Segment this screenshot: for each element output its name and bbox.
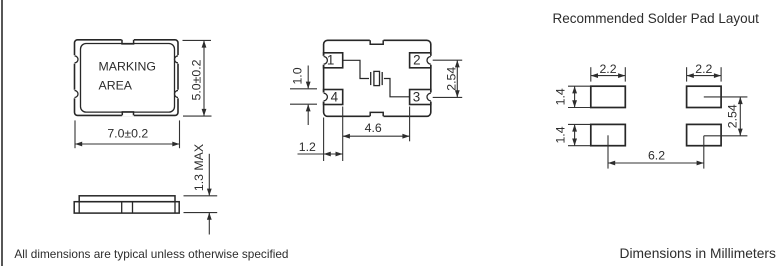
dimension 2.2 (right pads) <box>687 67 722 81</box>
dimension 1.2 <box>298 107 343 162</box>
wire crystal to pin3 <box>384 79 410 97</box>
dimension 4.6 <box>343 107 410 142</box>
left edge castellation notch (lower) <box>70 90 79 99</box>
side view pad dividers <box>79 202 175 213</box>
top lid seam notch <box>122 39 134 44</box>
package outline (schematic view) <box>324 40 431 116</box>
svg-text:1.2: 1.2 <box>299 140 316 154</box>
top notch <box>370 39 384 44</box>
svg-text:Dimensions in Millimeters: Dimensions in Millimeters <box>620 246 777 261</box>
pad 1 (top-left) <box>319 53 343 68</box>
pad 3 (bottom-right) <box>410 89 436 104</box>
dimension 1.3 MAX <box>184 154 218 235</box>
solder pad bottom-right <box>687 124 722 145</box>
svg-text:5.0±0.2: 5.0±0.2 <box>189 59 203 100</box>
svg-text:1.3 MAX: 1.3 MAX <box>192 144 206 191</box>
svg-text:MARKING: MARKING <box>99 60 156 74</box>
side view base <box>74 202 179 213</box>
crystal X1 right plate <box>381 72 383 85</box>
dimension 2.2 (left pads) <box>591 67 626 81</box>
solder pad top-left <box>591 86 626 107</box>
right edge castellation notch (lower) <box>174 90 183 99</box>
svg-text:6.2: 6.2 <box>648 149 665 163</box>
dimension 6.2 <box>608 135 704 168</box>
dimension 5.0±0.2 <box>183 40 212 116</box>
bottom notch <box>370 112 384 117</box>
side view lid <box>79 196 175 202</box>
svg-text:4.6: 4.6 <box>365 121 382 135</box>
crystal X1 body <box>374 71 380 85</box>
svg-text:Recommended Solder Pad Layout: Recommended Solder Pad Layout <box>553 11 760 26</box>
svg-text:2.54: 2.54 <box>444 67 458 91</box>
pad 2 (top-right) <box>410 53 436 68</box>
svg-text:AREA: AREA <box>99 79 133 93</box>
svg-text:1: 1 <box>327 53 334 68</box>
left edge castellation notch (upper) <box>70 55 79 64</box>
dimension 1.0 <box>290 66 317 126</box>
right edge castellation notch (upper) <box>174 55 183 64</box>
package outline (top view) <box>75 40 179 116</box>
dimension 2.54 (schematic) <box>433 60 463 97</box>
svg-text:2: 2 <box>413 53 420 68</box>
wire pin1 to crystal <box>343 60 369 78</box>
svg-text:2.2: 2.2 <box>599 62 616 76</box>
svg-text:3: 3 <box>413 89 420 104</box>
svg-text:2.54: 2.54 <box>725 104 739 128</box>
dimension 2.54 (pad layout) <box>704 97 748 136</box>
dimension 1.4 (upper left pad) <box>568 86 590 107</box>
solder pad top-right <box>687 86 722 107</box>
svg-text:All dimensions are typical unl: All dimensions are typical unless otherw… <box>14 247 288 261</box>
svg-text:7.0±0.2: 7.0±0.2 <box>107 127 148 141</box>
lid inner outline <box>81 44 175 113</box>
dimension 1.4 (lower left pad) <box>568 124 590 145</box>
frame left border <box>1 0 3 266</box>
svg-text:1.4: 1.4 <box>554 88 568 105</box>
svg-text:1.4: 1.4 <box>554 126 568 143</box>
svg-text:1.0: 1.0 <box>291 67 305 84</box>
crystal X1 left plate <box>370 72 372 85</box>
solder pad bottom-left <box>591 124 626 145</box>
svg-text:4: 4 <box>331 89 339 104</box>
pad 4 (bottom-left) <box>319 89 343 104</box>
bottom lid seam notch <box>122 112 134 117</box>
label MARKING AREA <box>99 60 156 93</box>
dimension 7.0±0.2 <box>75 120 180 148</box>
svg-text:2.2: 2.2 <box>695 62 712 76</box>
